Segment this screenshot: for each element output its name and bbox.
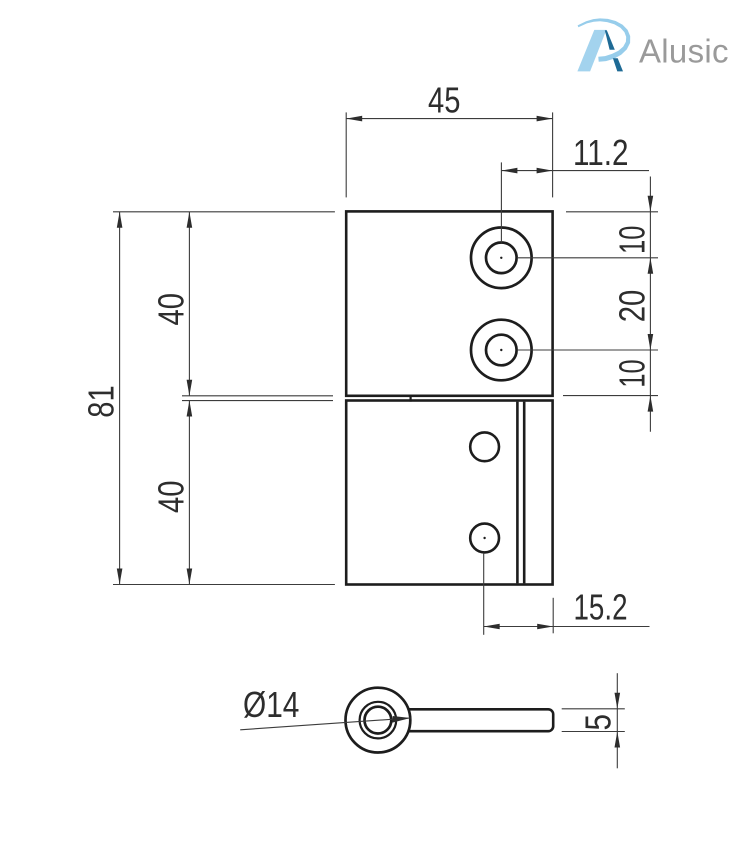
front view: bottom leaf outline bbox=[346, 401, 552, 585]
dim 15.2: arrow left bbox=[484, 624, 500, 630]
svg-text:45: 45 bbox=[428, 80, 460, 121]
hole C1 center dot bbox=[500, 257, 502, 259]
dim 45: dimension line bbox=[346, 118, 552, 120]
side view: bushing circle bbox=[360, 702, 397, 739]
dim 40 top: arrow up bbox=[187, 212, 193, 228]
right chain: extension line hole C2 axis bbox=[517, 349, 658, 351]
right chain: arrow down to top edge bbox=[648, 196, 654, 212]
dim 45: extension line left bbox=[345, 112, 347, 197]
svg-text:40: 40 bbox=[150, 481, 191, 513]
dim 40 bottom: dimension line bbox=[188, 401, 190, 585]
right chain: arrow up to hole C1 axis bbox=[648, 258, 654, 274]
dim 5: dimension line bbox=[616, 673, 618, 768]
counterbored hole C1 inner bbox=[486, 242, 517, 273]
dim 81: arrow down bbox=[117, 569, 123, 585]
leader Ø14: arrowhead bbox=[392, 716, 410, 723]
counterbored hole C2 inner bbox=[486, 335, 517, 366]
side view: leaf bbox=[400, 709, 553, 731]
logo A left stroke bbox=[577, 30, 606, 72]
dim 11.2: arrow left bbox=[501, 168, 517, 174]
dim 45: arrow right bbox=[537, 116, 553, 122]
hole C4 center dot bbox=[483, 537, 485, 539]
hole C3 bbox=[470, 432, 499, 461]
dim 11.2: dimension line bbox=[501, 170, 649, 172]
dim 40 bottom: arrow up bbox=[187, 401, 193, 417]
right chain: dimension line bbox=[649, 177, 651, 432]
hole C2 center dot bbox=[500, 349, 502, 351]
right chain: extension line joint bbox=[563, 395, 658, 397]
dim 45: extension line right bbox=[552, 112, 554, 197]
dim 81: arrow up bbox=[117, 212, 123, 228]
side view: pin hole circle bbox=[365, 707, 392, 734]
logo swoosh ellipse bbox=[578, 18, 631, 61]
hole C4 bbox=[470, 524, 499, 553]
svg-text:11.2: 11.2 bbox=[573, 132, 629, 173]
hinge joint tick bbox=[410, 395, 412, 402]
logo A right stroke lower bbox=[613, 58, 623, 71]
left dims: extension line joint upper bbox=[182, 395, 333, 397]
dim 5: arrow down from above bbox=[615, 693, 621, 709]
svg-text:40: 40 bbox=[150, 293, 191, 325]
dim 11.2: arrow right bbox=[537, 168, 553, 174]
left dims: extension line bottom edge bbox=[113, 584, 335, 586]
svg-text:Ø14: Ø14 bbox=[243, 684, 299, 725]
dim 5: extension line top bbox=[562, 708, 625, 710]
dim 40 top: dimension line bbox=[188, 212, 190, 396]
side view: knuckle outer circle bbox=[346, 688, 411, 753]
dim 15.2: dimension line bbox=[484, 626, 650, 628]
dim 81: dimension line bbox=[119, 212, 121, 585]
dim 40 bottom: arrow down bbox=[187, 569, 193, 585]
right chain: arrow down to hole C2 axis bbox=[648, 334, 654, 350]
dim 15.2: leader from hole C4 bbox=[483, 553, 485, 635]
fold line 2 bbox=[523, 402, 526, 584]
svg-text:10: 10 bbox=[611, 226, 652, 254]
counterbored hole C1 outer bbox=[471, 227, 532, 288]
leader Ø14: line bbox=[240, 718, 410, 730]
counterbored hole C2 outer bbox=[471, 320, 532, 381]
fold line 1 bbox=[516, 402, 519, 584]
dim 40 top: arrow down bbox=[187, 380, 193, 396]
dim 45: arrow left bbox=[346, 116, 362, 122]
logo A right stroke upper bbox=[605, 30, 615, 50]
svg-text:10: 10 bbox=[611, 359, 652, 387]
right chain: extension line top edge bbox=[566, 211, 658, 213]
dim 15.2: arrow right bbox=[537, 624, 553, 630]
svg-text:5: 5 bbox=[578, 714, 619, 731]
svg-text:Alusic: Alusic bbox=[639, 33, 729, 70]
left dims: extension line joint lower bbox=[182, 400, 333, 402]
dim 11.2: extension line at hole axis bbox=[500, 162, 502, 242]
front view: top leaf outline bbox=[346, 211, 552, 395]
dim 5: arrow up from below bbox=[615, 732, 621, 748]
svg-text:81: 81 bbox=[81, 385, 122, 417]
right chain: extension line hole C1 axis bbox=[517, 257, 658, 259]
dim 5: extension line bottom bbox=[562, 731, 625, 733]
left dims: extension line top edge bbox=[113, 211, 335, 213]
right chain: arrow up to joint bbox=[648, 396, 654, 412]
dim 15.2: extension line right bbox=[552, 598, 554, 634]
svg-text:15.2: 15.2 bbox=[574, 587, 628, 628]
svg-text:20: 20 bbox=[611, 290, 652, 323]
